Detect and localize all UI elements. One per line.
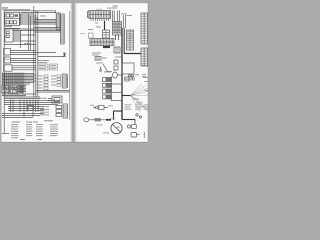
relay group box <box>99 105 104 109</box>
box2 tail <box>137 134 140 136</box>
wire fan <box>131 84 151 113</box>
border double line right <box>36 91 70 93</box>
wire bundle to ladder upper <box>34 20 56 25</box>
frame second top line <box>21 12 56 14</box>
connector X symbol <box>63 53 66 57</box>
elbow down vertical <box>113 111 115 120</box>
block lower leads <box>116 35 119 40</box>
relay H inner 2 <box>15 88 17 90</box>
strip 2 mid line <box>90 41 114 43</box>
strip 1 pin ticks <box>91 11 110 19</box>
small box pair 2 <box>114 66 118 70</box>
switch box E <box>4 57 11 63</box>
trunk right branch thick <box>124 53 141 55</box>
left col text rows <box>5 58 10 61</box>
grommet label <box>115 126 120 129</box>
frame left border <box>3 11 5 134</box>
ladder 1 rungs <box>56 15 60 27</box>
mid diagonal wire <box>103 64 108 72</box>
left cell box ticks <box>116 47 118 53</box>
mesh horizontal bundle <box>2 74 36 85</box>
bottom connector box 2 <box>131 133 137 138</box>
dark box row 4 <box>107 95 111 99</box>
relay B2 <box>6 35 9 38</box>
bottom right horizontal <box>122 119 135 121</box>
mid cluster text <box>92 52 101 55</box>
relay H inner <box>12 88 14 90</box>
left page <box>2 3 71 142</box>
oval component <box>113 72 118 78</box>
ladder bottom rungs <box>63 106 68 116</box>
multi-pin connector strip 1 <box>89 11 111 19</box>
top pigtail pair 3 <box>124 15 126 28</box>
boxed label 1 divider <box>38 66 48 68</box>
elbow left horizontal <box>114 110 123 112</box>
component block under strip1 <box>103 30 110 38</box>
hatch marks H <box>12 87 18 92</box>
long wire L with connector <box>38 53 65 57</box>
small box pair 1 <box>114 60 118 64</box>
ladder connector bottom right <box>63 104 68 118</box>
footer page marks <box>20 139 25 140</box>
bottom harness line <box>89 119 106 121</box>
relay A1 <box>6 14 10 17</box>
pin table divider 1 <box>143 13 145 44</box>
branch to oval <box>117 74 122 76</box>
trunk fan branch <box>122 95 131 97</box>
top right text <box>113 5 119 8</box>
relay module box B <box>5 29 13 42</box>
harness circles <box>95 119 98 122</box>
border double line left <box>4 97 40 99</box>
label rows text right <box>51 75 56 78</box>
branch right y79 <box>124 78 130 80</box>
left faint dash <box>80 32 86 35</box>
riser vertical 2 <box>30 17 32 51</box>
relay module box A <box>5 13 20 26</box>
branch line y92 <box>112 91 123 93</box>
wire mid <box>4 44 36 46</box>
relay G inner <box>3 87 5 89</box>
bottom harness label <box>111 117 115 120</box>
wire bundle to ladder lower <box>13 28 61 33</box>
block inner rows <box>103 30 110 38</box>
trunk double vertical a <box>121 28 123 120</box>
mesh density tint <box>2 73 26 97</box>
mid drop line <box>100 67 102 70</box>
hatch marks G <box>3 87 9 93</box>
arrow label text bottom <box>40 97 47 100</box>
wires from box B <box>13 31 36 41</box>
ladder connector small right <box>62 74 66 88</box>
wires from box D <box>11 51 57 55</box>
mid connector grid <box>95 57 101 61</box>
page right shadow edge <box>147 3 150 142</box>
right pin table row texts <box>113 15 147 78</box>
frame top line <box>4 10 56 12</box>
wires from box A <box>20 14 38 24</box>
page right edge line <box>69 11 71 120</box>
relay group label <box>108 105 113 108</box>
boxed label text <box>39 64 46 67</box>
small boxes column <box>56 106 62 109</box>
text cols above grommet <box>125 104 132 107</box>
strip 1 tab <box>88 12 90 18</box>
vertical right of ladder <box>67 74 69 88</box>
mid pin table row lines <box>127 32 134 48</box>
dark segment bottom harness <box>106 119 111 121</box>
wires from box E <box>11 59 37 63</box>
bottom connector box <box>132 124 137 128</box>
wire below box A <box>4 27 20 29</box>
fuse block dark <box>14 14 18 16</box>
junction box circles <box>128 75 130 77</box>
text below box A <box>5 26 12 28</box>
strip 2 pin ticks <box>92 39 113 46</box>
left column bus text <box>104 71 111 74</box>
fuse box D <box>4 49 11 56</box>
relay box H hatched <box>11 86 18 93</box>
wires from box F <box>12 66 36 70</box>
relay group leads <box>93 107 108 109</box>
mid pin table divider <box>129 30 131 50</box>
bus vertical 3 <box>37 11 39 97</box>
relay A2 <box>10 14 14 17</box>
left cell box <box>114 47 120 53</box>
relay G inner 2 <box>6 87 8 89</box>
mid pin table texts <box>127 30 133 33</box>
lower wire bundle <box>4 101 60 105</box>
connector block grid <box>113 22 122 36</box>
table corner line <box>2 133 9 135</box>
text under L wire <box>38 59 49 62</box>
relay box G hatched <box>2 86 10 93</box>
relay A5 <box>14 21 17 24</box>
left column box row 2 <box>103 83 107 87</box>
legend table text columns <box>11 124 58 140</box>
text under strip1 <box>95 22 98 25</box>
label row boxes right <box>57 75 61 77</box>
right pin table section 1 <box>141 13 148 44</box>
connector box left <box>89 33 94 38</box>
mesh horizontal bundle lower <box>2 86 36 96</box>
left column box row 3 <box>103 89 107 93</box>
right pin table section 2 <box>141 48 148 66</box>
ladder 2 rungs <box>61 16 65 42</box>
dark harness elements <box>103 21 141 124</box>
left column box row 1 <box>103 78 107 82</box>
switch box F <box>4 65 13 71</box>
label rows text left <box>37 75 43 78</box>
top pigtail pair 2 <box>118 11 120 22</box>
double rect component <box>52 96 62 103</box>
mid circle component <box>100 70 102 72</box>
strip1 header text <box>96 8 102 11</box>
multi-pin connector strip 2 <box>90 39 114 46</box>
ladder connector tall 1 <box>56 13 60 30</box>
bus vertical 1 <box>33 6 35 97</box>
grommet circle <box>111 123 122 134</box>
boxed label 2 <box>50 64 58 70</box>
bottom harness oval <box>84 118 89 122</box>
lower wire bundle 2 <box>8 107 44 111</box>
lower mesh verticals <box>11 100 39 118</box>
boxed label 2 divider <box>50 66 58 68</box>
left column bus <box>111 76 113 101</box>
small circle tails <box>136 114 138 116</box>
relay B1 <box>6 31 9 34</box>
riser vertical 1 <box>28 15 30 51</box>
right page tiny text <box>80 6 150 139</box>
right page <box>77 3 148 142</box>
mesh vertical bundle <box>3 73 23 95</box>
relay group circle <box>96 106 99 109</box>
label text top <box>2 6 8 9</box>
relay A4 <box>10 21 13 24</box>
grommet slash <box>112 124 121 133</box>
fan labels <box>133 98 139 101</box>
bottom connector circle <box>128 125 131 128</box>
ladder feed drops <box>56 11 59 14</box>
mid grid ticks <box>97 57 99 61</box>
mid pin table <box>127 30 134 50</box>
component box in mesh <box>28 106 34 111</box>
branch y84 <box>112 83 123 85</box>
dark connector cluster I <box>19 87 24 93</box>
strip 1 mid line <box>89 14 111 16</box>
wire top short <box>2 9 30 11</box>
comb right <box>131 77 134 81</box>
dark bar under strip2 <box>103 46 110 48</box>
dark box row 2 <box>107 83 111 87</box>
branch line y100 <box>112 100 123 102</box>
drop to connectors <box>134 120 136 125</box>
pin table divider 2 <box>143 48 145 66</box>
inner rect <box>54 98 60 102</box>
block grid cell marks <box>113 22 116 24</box>
strip 1 pin tails <box>91 19 109 22</box>
trunk double vertical b <box>123 28 125 54</box>
branch right boxes <box>125 77 129 81</box>
label row boxes left <box>44 75 48 77</box>
box A cross wire <box>5 18 20 20</box>
top pigtail pair 1 <box>113 11 115 22</box>
thick lead above component <box>104 21 106 30</box>
ladder connector tall 2 <box>61 14 65 44</box>
bus vertical 2 <box>35 11 37 97</box>
dark box row 3 <box>107 89 111 93</box>
bottom wires <box>2 114 44 118</box>
left page tiny text <box>2 7 56 122</box>
box A inner border <box>20 13 21 26</box>
boxed label 1 <box>38 64 48 70</box>
relay A3 <box>6 21 9 24</box>
harness junction box <box>122 63 134 74</box>
ladder small rungs <box>62 76 66 86</box>
left column box row 4 <box>103 95 107 99</box>
table bottom faint marks <box>142 73 146 76</box>
block inner rows <box>113 22 122 36</box>
page bottom shadow edge <box>2 141 148 144</box>
arrow lines to component <box>48 99 52 101</box>
table header text <box>12 122 20 123</box>
dark box row 1 <box>107 78 111 82</box>
riser from box B <box>20 31 22 48</box>
spine shadow <box>70 3 77 142</box>
